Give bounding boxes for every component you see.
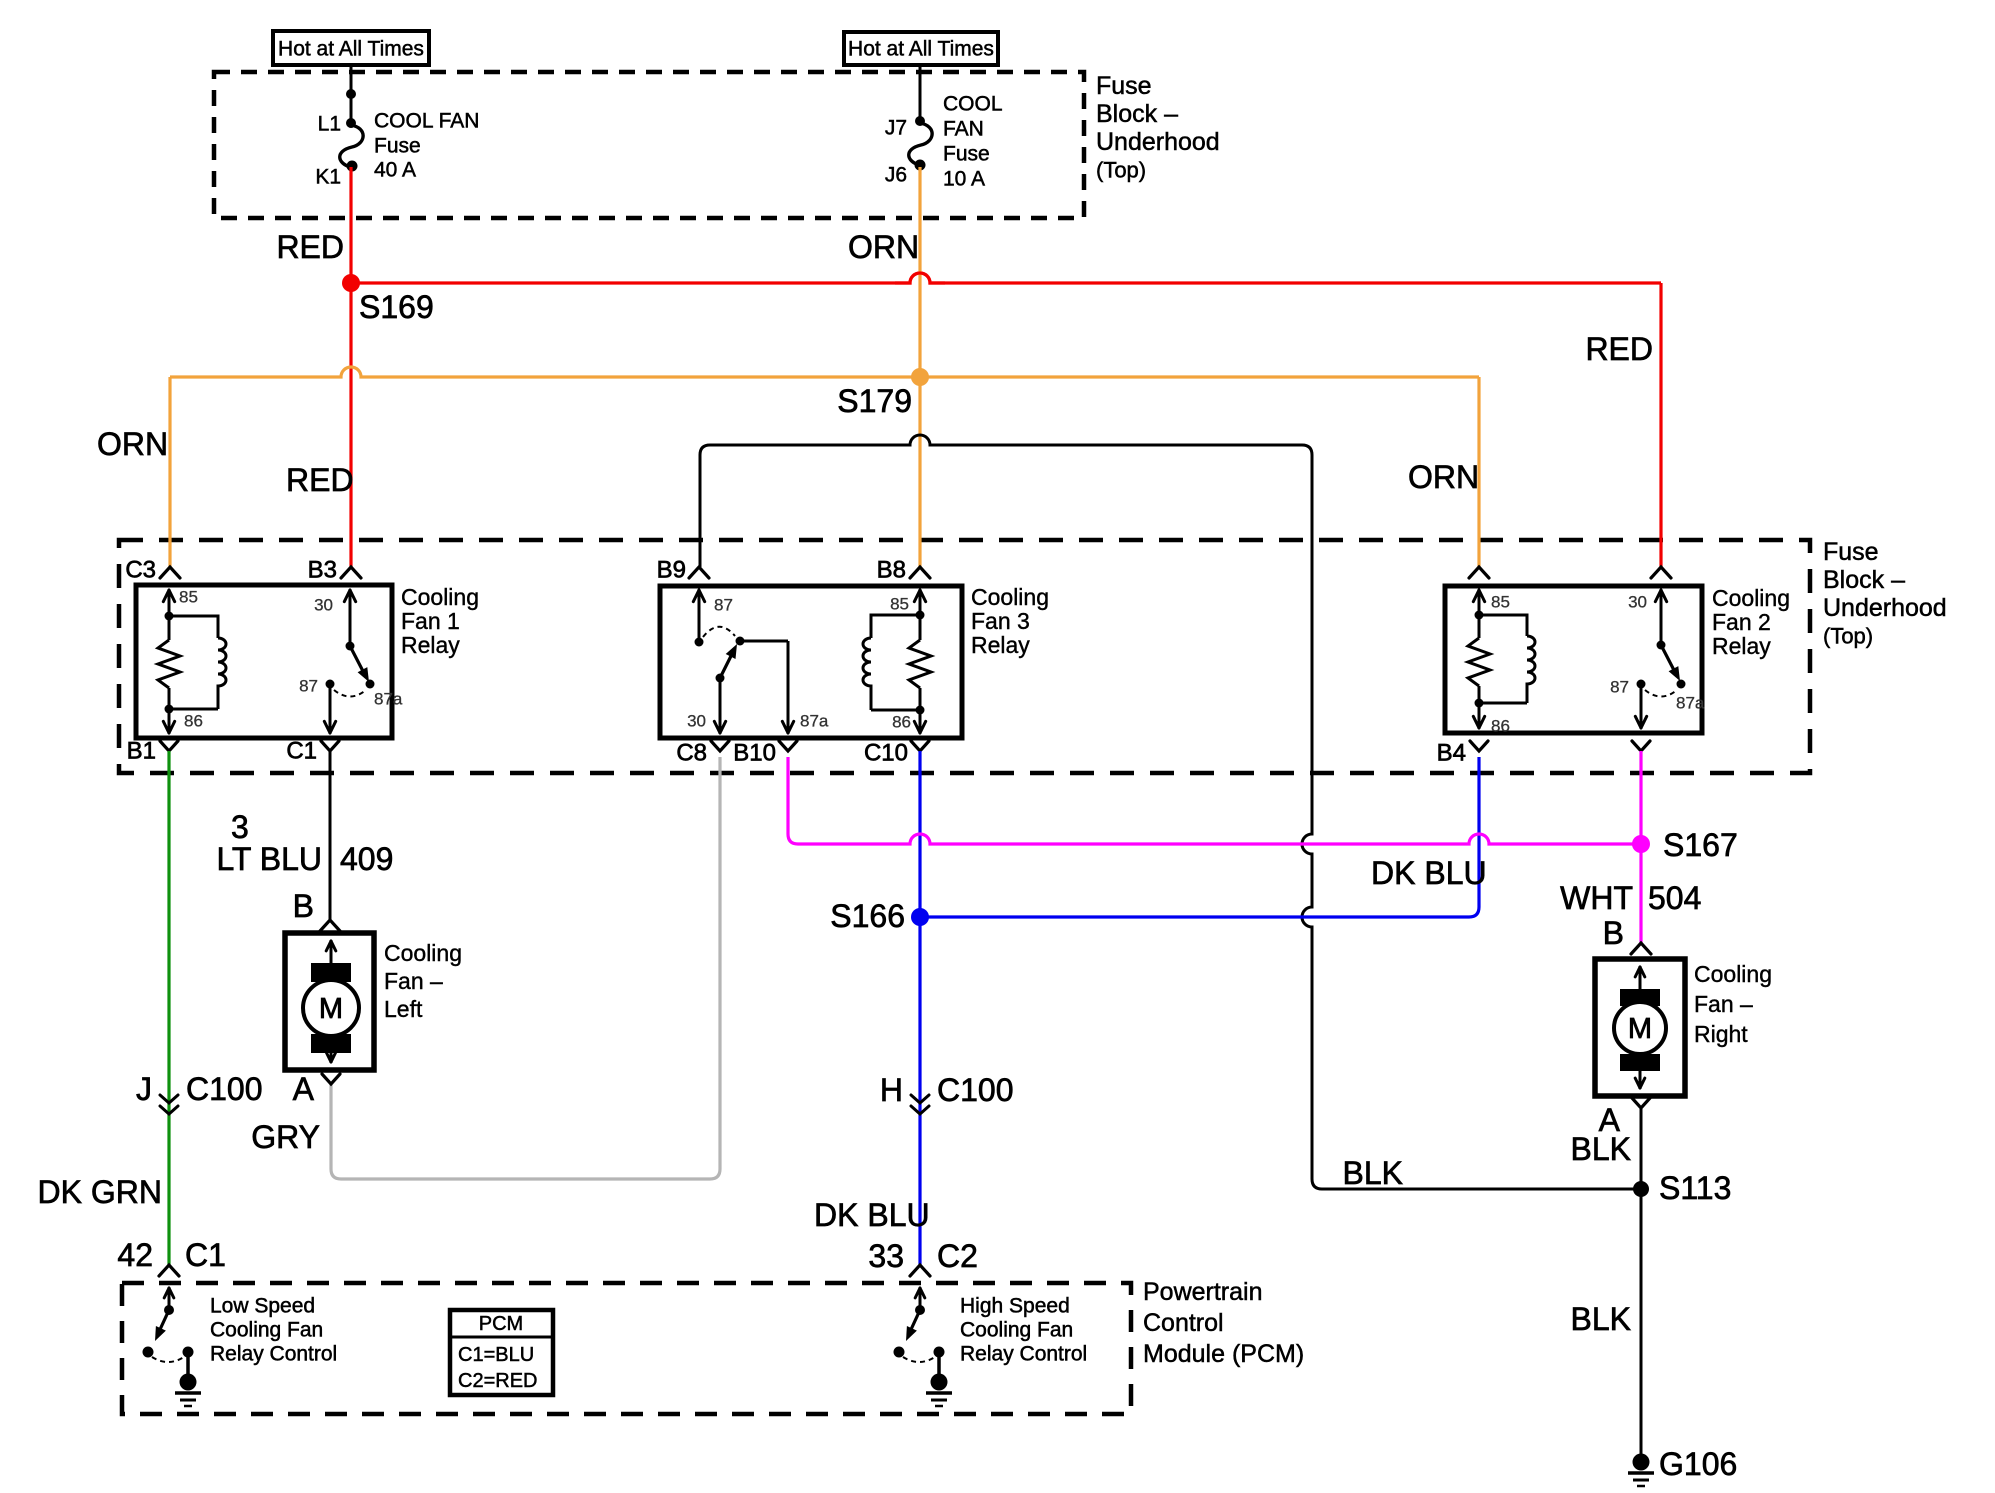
- svg-text:3: 3: [231, 809, 249, 845]
- svg-text:B8: B8: [877, 557, 906, 584]
- svg-text:LT BLU: LT BLU: [216, 841, 322, 877]
- svg-text:DK BLU: DK BLU: [1371, 855, 1487, 891]
- svg-text:Cooling: Cooling: [1712, 585, 1790, 611]
- svg-text:Control: Control: [1143, 1309, 1224, 1337]
- svg-text:C8: C8: [676, 740, 707, 767]
- svg-text:Block –: Block –: [1096, 100, 1178, 128]
- svg-text:85: 85: [179, 588, 198, 607]
- svg-text:ORN: ORN: [848, 229, 919, 265]
- svg-text:Hot at All Times: Hot at All Times: [848, 38, 994, 61]
- svg-text:85: 85: [890, 595, 909, 614]
- svg-text:G106: G106: [1659, 1446, 1737, 1482]
- svg-text:Underhood: Underhood: [1096, 128, 1220, 156]
- svg-text:Block –: Block –: [1823, 566, 1905, 594]
- svg-text:B: B: [293, 888, 314, 924]
- svg-text:Fan –: Fan –: [1694, 991, 1753, 1017]
- svg-text:B10: B10: [733, 740, 776, 767]
- svg-text:87a: 87a: [374, 690, 403, 709]
- svg-text:Powertrain: Powertrain: [1143, 1278, 1263, 1306]
- svg-text:30: 30: [1628, 593, 1647, 612]
- svg-text:Cooling: Cooling: [384, 940, 462, 966]
- svg-text:87a: 87a: [800, 712, 829, 731]
- svg-text:B1: B1: [127, 738, 156, 765]
- svg-text:S113: S113: [1659, 1170, 1731, 1206]
- svg-text:Right: Right: [1694, 1021, 1748, 1047]
- svg-text:Fuse: Fuse: [1823, 538, 1879, 566]
- svg-text:ORN: ORN: [1408, 459, 1479, 495]
- svg-text:C2=RED: C2=RED: [458, 1370, 537, 1392]
- svg-text:GRY: GRY: [251, 1119, 320, 1155]
- svg-text:B9: B9: [657, 557, 686, 584]
- svg-text:Cooling Fan: Cooling Fan: [210, 1319, 323, 1342]
- svg-text:Cooling Fan: Cooling Fan: [960, 1319, 1073, 1342]
- svg-text:Hot at All Times: Hot at All Times: [278, 38, 424, 61]
- svg-text:WHT: WHT: [1560, 880, 1633, 916]
- svg-text:86: 86: [184, 712, 203, 731]
- svg-text:Fan 2: Fan 2: [1712, 609, 1771, 635]
- svg-text:87: 87: [299, 677, 318, 696]
- svg-text:K1: K1: [315, 166, 341, 189]
- svg-text:S169: S169: [359, 289, 434, 325]
- svg-text:BLK: BLK: [1343, 1155, 1403, 1191]
- svg-text:Fan –: Fan –: [384, 968, 443, 994]
- svg-text:C100: C100: [937, 1072, 1014, 1108]
- svg-text:87: 87: [1610, 678, 1629, 697]
- svg-text:RED: RED: [276, 229, 344, 265]
- svg-text:ORN: ORN: [97, 426, 168, 462]
- svg-text:Relay: Relay: [1712, 633, 1771, 659]
- svg-text:High Speed: High Speed: [960, 1295, 1070, 1318]
- svg-text:Relay Control: Relay Control: [960, 1343, 1087, 1366]
- svg-text:C100: C100: [186, 1071, 263, 1107]
- svg-text:RED: RED: [286, 462, 354, 498]
- svg-text:S179: S179: [837, 383, 912, 419]
- svg-text:86: 86: [892, 713, 911, 732]
- svg-text:10 A: 10 A: [943, 168, 985, 191]
- svg-text:C3: C3: [125, 557, 156, 584]
- svg-text:Cooling: Cooling: [971, 584, 1049, 610]
- svg-text:M: M: [1628, 1013, 1652, 1045]
- svg-text:Module (PCM): Module (PCM): [1143, 1340, 1304, 1368]
- svg-text:Underhood: Underhood: [1823, 594, 1947, 622]
- svg-text:C1=BLU: C1=BLU: [458, 1344, 534, 1366]
- svg-text:42: 42: [117, 1237, 153, 1273]
- svg-text:409: 409: [340, 841, 393, 877]
- svg-text:87a: 87a: [1676, 694, 1705, 713]
- svg-text:86: 86: [1491, 717, 1510, 736]
- svg-text:504: 504: [1648, 880, 1701, 916]
- svg-text:C1: C1: [286, 738, 317, 765]
- svg-text:J: J: [136, 1071, 152, 1107]
- svg-text:85: 85: [1491, 593, 1510, 612]
- svg-text:Relay: Relay: [401, 632, 460, 658]
- svg-text:Fan 1: Fan 1: [401, 608, 460, 634]
- svg-text:DK BLU: DK BLU: [814, 1197, 930, 1233]
- svg-text:Left: Left: [384, 996, 423, 1022]
- svg-text:S166: S166: [830, 898, 905, 934]
- svg-text:PCM: PCM: [479, 1313, 523, 1335]
- svg-text:(Top): (Top): [1823, 624, 1873, 649]
- svg-text:J6: J6: [885, 164, 907, 187]
- svg-text:B3: B3: [308, 557, 337, 584]
- svg-text:COOL: COOL: [943, 93, 1003, 116]
- svg-text:FAN: FAN: [943, 118, 984, 141]
- svg-text:BLK: BLK: [1571, 1131, 1631, 1167]
- svg-text:Cooling: Cooling: [401, 584, 479, 610]
- svg-text:Cooling: Cooling: [1694, 961, 1772, 987]
- svg-text:Fuse: Fuse: [1096, 72, 1152, 100]
- svg-text:30: 30: [687, 712, 706, 731]
- svg-text:Relay: Relay: [971, 632, 1030, 658]
- svg-text:C1: C1: [185, 1237, 226, 1273]
- svg-text:A: A: [293, 1071, 315, 1107]
- svg-text:DK GRN: DK GRN: [38, 1174, 162, 1210]
- svg-text:Low Speed: Low Speed: [210, 1295, 315, 1318]
- svg-text:B: B: [1603, 915, 1624, 951]
- svg-text:BLK: BLK: [1571, 1301, 1631, 1337]
- svg-text:33: 33: [868, 1238, 904, 1274]
- svg-text:B4: B4: [1437, 740, 1466, 767]
- svg-text:30: 30: [314, 596, 333, 615]
- svg-text:40 A: 40 A: [374, 159, 416, 182]
- svg-text:C2: C2: [937, 1238, 978, 1274]
- svg-text:RED: RED: [1585, 331, 1653, 367]
- svg-text:Fuse: Fuse: [943, 143, 990, 166]
- svg-text:87: 87: [714, 596, 733, 615]
- svg-text:Relay Control: Relay Control: [210, 1343, 337, 1366]
- svg-text:Fan 3: Fan 3: [971, 608, 1030, 634]
- svg-text:J7: J7: [885, 117, 907, 140]
- svg-text:M: M: [319, 993, 343, 1025]
- svg-text:C10: C10: [864, 740, 908, 767]
- svg-text:Fuse: Fuse: [374, 135, 421, 158]
- svg-text:COOL FAN: COOL FAN: [374, 110, 479, 133]
- svg-text:H: H: [880, 1072, 903, 1108]
- svg-text:L1: L1: [318, 113, 341, 136]
- svg-text:(Top): (Top): [1096, 158, 1146, 183]
- svg-text:S167: S167: [1663, 827, 1738, 863]
